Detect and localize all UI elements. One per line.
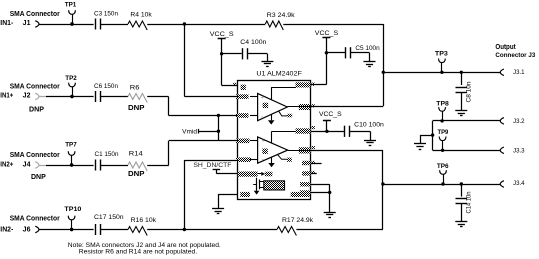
svg-text:R4 10k: R4 10k xyxy=(130,11,152,18)
svg-text:VCC_S: VCC_S xyxy=(315,30,338,37)
svg-text:C17 150n: C17 150n xyxy=(94,214,124,221)
svg-text:IN1-: IN1- xyxy=(0,20,14,27)
svg-text:TP6: TP6 xyxy=(437,163,449,170)
svg-text:+: + xyxy=(261,95,264,101)
svg-text:TP10: TP10 xyxy=(64,206,82,213)
svg-text:C4 100n: C4 100n xyxy=(240,39,267,46)
svg-text:J3.2: J3.2 xyxy=(513,118,525,125)
svg-text:DNP: DNP xyxy=(128,171,145,178)
svg-text:J3.1: J3.1 xyxy=(513,69,525,76)
svg-text:R14: R14 xyxy=(129,150,143,157)
svg-text:TP2: TP2 xyxy=(65,75,77,82)
svg-text:IN1+: IN1+ xyxy=(0,93,13,100)
svg-text:-: - xyxy=(261,113,263,120)
svg-text:TP1: TP1 xyxy=(65,2,77,9)
svg-text:DNP: DNP xyxy=(31,174,46,181)
svg-text:C6 150n: C6 150n xyxy=(94,83,118,90)
svg-text:SMA Connector: SMA Connector xyxy=(10,152,60,159)
svg-text:DNP: DNP xyxy=(128,105,145,112)
svg-text:TP9: TP9 xyxy=(438,129,449,136)
svg-text:+: + xyxy=(262,139,265,145)
svg-text:C10 100n: C10 100n xyxy=(354,122,384,129)
svg-text:Vmid: Vmid xyxy=(182,129,197,136)
svg-text:DNP: DNP xyxy=(29,106,44,113)
svg-text:TP8: TP8 xyxy=(436,101,449,108)
svg-text:IN2-: IN2- xyxy=(0,227,14,234)
svg-text:TP7: TP7 xyxy=(65,142,77,149)
svg-text:TP3: TP3 xyxy=(435,51,449,58)
svg-text:C1 150n: C1 150n xyxy=(95,151,119,158)
svg-text:J4: J4 xyxy=(23,162,31,169)
svg-text:Output: Output xyxy=(495,44,516,51)
svg-text:C8 10n: C8 10n xyxy=(465,82,472,103)
svg-text:VCC_S: VCC_S xyxy=(319,111,342,118)
svg-text:R6: R6 xyxy=(130,84,140,91)
svg-text:R17 24.9k: R17 24.9k xyxy=(282,217,314,224)
svg-text:C14 10n: C14 10n xyxy=(465,192,472,214)
svg-text:SH_DN/CTF: SH_DN/CTF xyxy=(193,162,231,169)
svg-text:C5 100n: C5 100n xyxy=(355,45,380,52)
svg-text:SMA Connector: SMA Connector xyxy=(10,216,60,223)
svg-text:R3 24.9k: R3 24.9k xyxy=(267,12,296,19)
svg-text:IN2+: IN2+ xyxy=(0,162,13,169)
svg-text:-: - xyxy=(262,156,264,163)
svg-text:J3.3: J3.3 xyxy=(513,148,525,155)
svg-text:SMA Connector: SMA Connector xyxy=(10,11,60,18)
svg-text:C3 150n: C3 150n xyxy=(94,11,118,18)
svg-text:U1 ALM2402F: U1 ALM2402F xyxy=(256,71,301,78)
svg-text:SMA Connector: SMA Connector xyxy=(10,83,60,90)
svg-text:J1: J1 xyxy=(23,20,31,27)
svg-text:J6: J6 xyxy=(23,227,31,234)
svg-text:J2: J2 xyxy=(23,93,31,100)
svg-text:VCC_S: VCC_S xyxy=(210,31,234,38)
svg-text:Connector J3: Connector J3 xyxy=(495,52,535,59)
svg-text:R16 10k: R16 10k xyxy=(131,217,157,224)
svg-text:Resistor R6 and R14 are not po: Resistor R6 and R14 are not populated. xyxy=(79,249,197,256)
svg-text:J3.4: J3.4 xyxy=(513,180,525,187)
